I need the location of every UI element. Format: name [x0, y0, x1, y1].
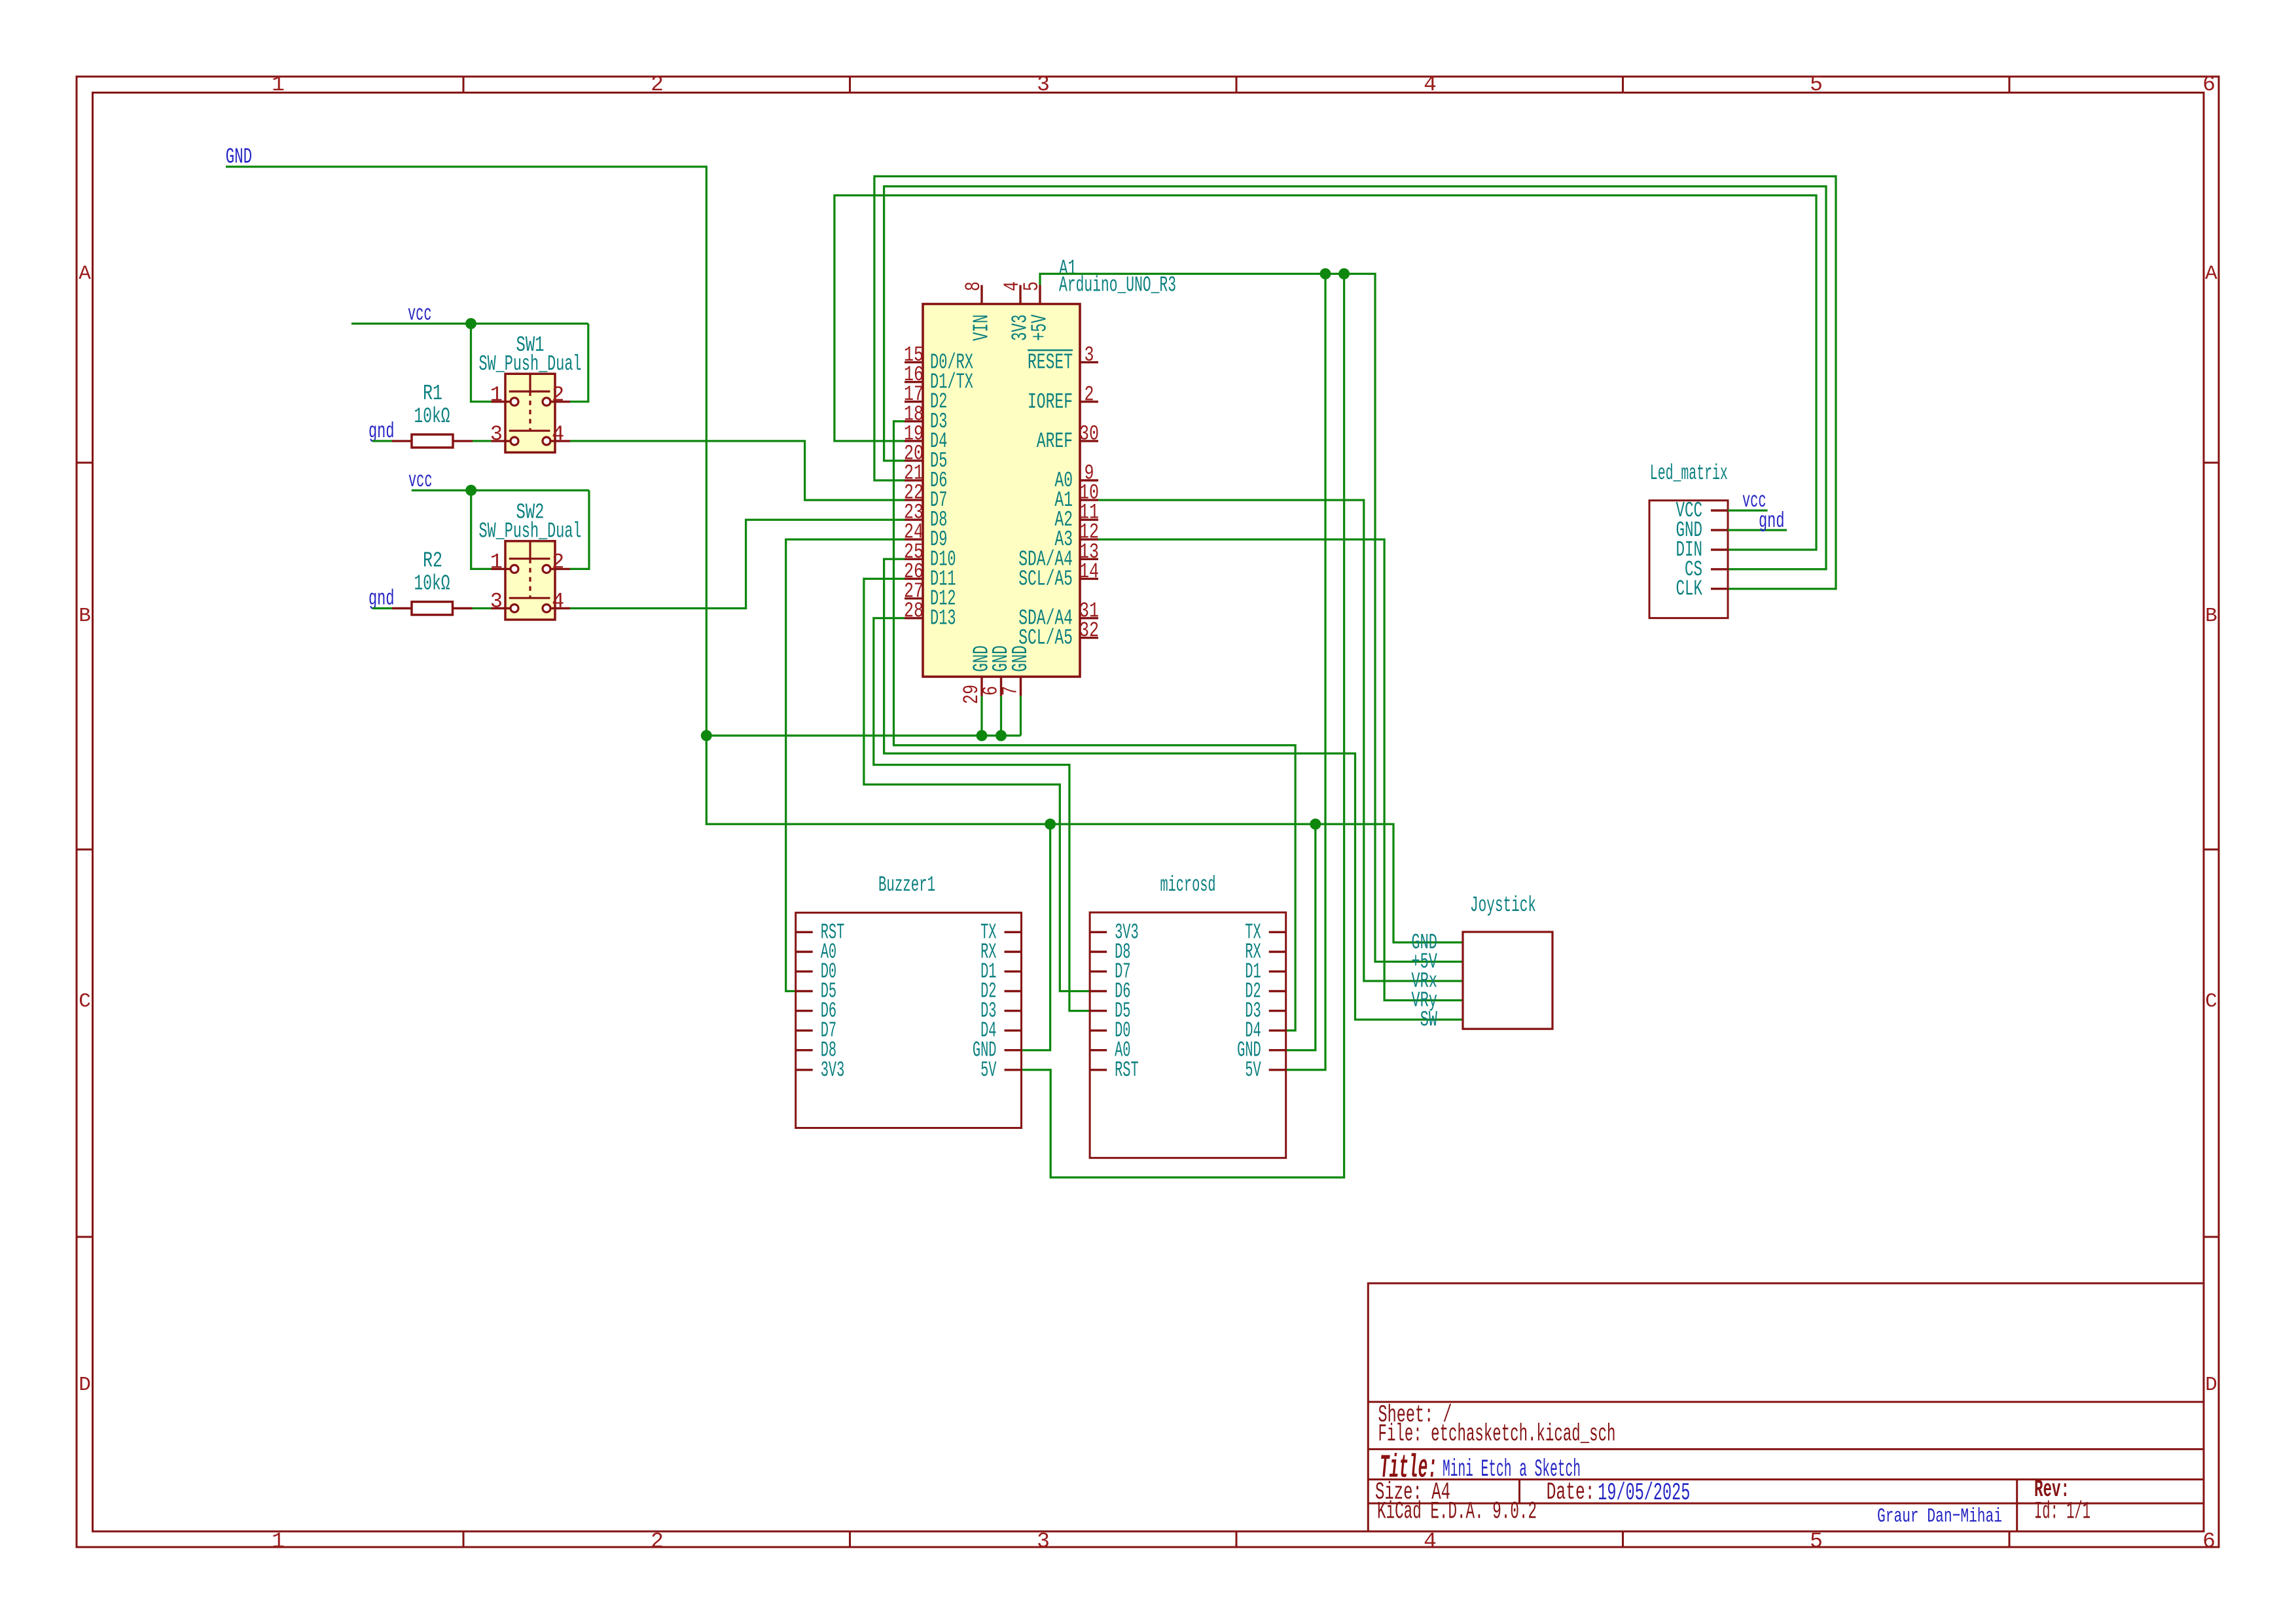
wire A3 to Joystick VRy [1098, 539, 1463, 1000]
wire GND from label down to Arduino GND pins [226, 167, 706, 736]
svg-text:Joystick: Joystick [1470, 893, 1536, 918]
svg-text:VIN: VIN [970, 315, 994, 342]
wire gnd to R1 [372, 440, 392, 442]
wire +5V from pin5 to Joystick +5V [1040, 274, 1463, 961]
wire GND bus to Joystick GND [706, 736, 1463, 942]
pin 23 D8 [905, 518, 923, 520]
svg-text:19/05/2025: 19/05/2025 [1598, 1480, 1690, 1507]
svg-text:Led_matrix: Led_matrix [1650, 461, 1728, 486]
pin 9 A0 [1080, 479, 1098, 481]
svg-text:4: 4 [552, 422, 564, 446]
wire +5V down to Buzzer1 5V [1022, 274, 1344, 1177]
svg-text:3: 3 [490, 422, 503, 446]
wire R1 to SW1 pin3 [473, 440, 492, 442]
sheet pin 3V3 (left) [1090, 931, 1107, 933]
wire vcc to SW2 pin1 [471, 490, 492, 569]
sheet pin 5V (right) [1269, 1069, 1286, 1071]
pin 6 GND (bottom) [1000, 677, 1002, 696]
svg-text:Arduino_UNO_R3: Arduino_UNO_R3 [1059, 274, 1176, 298]
wire [570, 441, 905, 500]
svg-text:C: C [79, 990, 91, 1013]
svg-text:D: D [2205, 1374, 2217, 1397]
pin 25 D10 [905, 558, 923, 560]
wire gnd to R2 [372, 607, 392, 609]
sheet pin D5 (left) [1090, 1010, 1107, 1012]
pin 31 SDA/A4 [1080, 617, 1098, 619]
junction GND microsd [1310, 819, 1321, 830]
pin 19 D4 [905, 440, 923, 442]
svg-text:AREF: AREF [1037, 429, 1073, 454]
sheet Buzzer1 [796, 913, 1022, 1128]
sheet pin D4 (right) [1005, 1029, 1022, 1031]
sheet pin D8 (left) [1090, 951, 1107, 953]
svg-text:5: 5 [1810, 73, 1823, 97]
svg-text:RST: RST [1115, 1058, 1139, 1082]
svg-text:2: 2 [651, 73, 664, 97]
svg-text:6: 6 [2202, 73, 2215, 97]
svg-text:IOREF: IOREF [1028, 390, 1073, 414]
svg-text:2: 2 [1085, 382, 1094, 406]
sheet pin GND (right) [1269, 1049, 1286, 1051]
wire R2 to SW2 pin3 [473, 607, 492, 609]
sheet pin D8 (left) [796, 1049, 813, 1051]
wire GND to microsd GND [1286, 824, 1316, 1050]
pin 10 A1 [1080, 499, 1098, 501]
svg-text:SW: SW [1420, 1008, 1438, 1032]
connector Joystick symbol body [1463, 932, 1552, 1029]
wire A1 to Joystick VRx [1098, 500, 1463, 981]
svg-text:10kΩ: 10kΩ [414, 572, 450, 596]
svg-text:8: 8 [961, 281, 986, 291]
pin 22 D7 [905, 499, 923, 501]
wire GND to Buzzer1 GND [1022, 824, 1050, 1050]
wire D5 to Led_matrix CS [884, 187, 1826, 569]
wire GND pin6 [1000, 696, 1002, 736]
pin 18 D3 [905, 420, 923, 422]
svg-text:28: 28 [904, 599, 924, 623]
wire D10 to Joystick SW [884, 559, 1463, 1020]
svg-text:3: 3 [490, 590, 503, 614]
svg-text:File: etchasketch.kicad_sch: File: etchasketch.kicad_sch [1378, 1421, 1616, 1448]
svg-text:1: 1 [272, 1529, 285, 1554]
sheet pin D5 (left) [796, 990, 813, 992]
svg-text:2: 2 [651, 1529, 664, 1554]
pin 26 D11 [905, 578, 923, 580]
sheet pin D7 (left) [796, 1029, 813, 1031]
sheet pin TX (right) [1269, 931, 1286, 933]
wire GND pin29 [980, 696, 982, 736]
sheet pin D1 (right) [1005, 971, 1022, 972]
sheet pin RST (left) [796, 931, 813, 933]
wire D11 to microsd D6 [864, 579, 1090, 991]
pin 17 D2 [905, 401, 923, 402]
svg-text:1: 1 [490, 550, 503, 574]
sheet pin RX (right) [1005, 951, 1022, 953]
svg-text:32: 32 [1079, 618, 1099, 643]
sheet pin D6 (left) [1090, 990, 1107, 992]
sheet pin D2 (right) [1269, 990, 1286, 992]
pin 2 IOREF [1080, 401, 1098, 402]
wire vcc to SW1 pin1 [471, 324, 492, 402]
sheet pin RX (right) [1269, 951, 1286, 953]
wire [1728, 509, 1768, 511]
svg-text:SCL/A5: SCL/A5 [1018, 567, 1073, 591]
junction GND Buzzer [1045, 819, 1056, 830]
svg-text:Id: 1/1: Id: 1/1 [2034, 1499, 2090, 1526]
svg-text:Graur Dan−Mihai: Graur Dan−Mihai [1877, 1505, 2002, 1528]
svg-text:3V3: 3V3 [821, 1058, 845, 1082]
wire GND pin7 [1020, 696, 1022, 736]
pin 24 D9 [905, 539, 923, 541]
Arduino_UNO_R3 A1 symbol body [923, 304, 1080, 677]
svg-text:Date:: Date: [1547, 1479, 1595, 1507]
svg-text:2: 2 [552, 550, 564, 574]
wire [1728, 529, 1787, 531]
sheet pin CLK (Led_matrix) [1711, 588, 1728, 590]
sheet pin D6 (left) [796, 1010, 813, 1012]
svg-text:gnd: gnd [368, 586, 395, 611]
svg-text:SW_Push_Dual: SW_Push_Dual [479, 519, 582, 543]
junction vcc-SW1 [465, 318, 476, 329]
svg-text:4: 4 [1424, 1529, 1437, 1554]
pin 29 GND (bottom) [980, 677, 982, 696]
wire D9 to Buzzer1 D5 [786, 539, 905, 991]
svg-text:CLK: CLK [1676, 577, 1703, 601]
wire D13 to microsd D5 [874, 618, 1090, 1011]
wire vcc SW2 [412, 490, 589, 491]
sheet pin A0 (left) [796, 951, 813, 953]
pin 32 SCL/A5 [1080, 637, 1098, 639]
svg-text:microsd: microsd [1160, 873, 1216, 897]
svg-text:5V: 5V [1245, 1058, 1261, 1082]
svg-text:A: A [2205, 262, 2217, 285]
svg-text:KiCad E.D.A. 9.0.2: KiCad E.D.A. 9.0.2 [1377, 1499, 1537, 1526]
sheet Led_matrix [1649, 501, 1728, 618]
svg-text:1: 1 [490, 383, 503, 407]
sheet pin D3 (right) [1269, 1010, 1286, 1012]
pin 27 D12 [905, 597, 923, 599]
sheet pin 3V3 (left) [796, 1069, 813, 1071]
sheet pin A0 (left) [1090, 1049, 1107, 1051]
wire vcc to SW2 pin2 [570, 490, 589, 569]
pin 21 D6 [905, 479, 923, 481]
svg-text:5V: 5V [980, 1058, 997, 1082]
pin 20 D5 [905, 459, 923, 461]
sheet pin 5V (right) [1005, 1069, 1022, 1071]
svg-text:R2: R2 [423, 549, 442, 573]
wire [570, 520, 905, 608]
svg-text:7: 7 [999, 686, 1023, 696]
pin 28 D13 [905, 617, 923, 619]
svg-text:Buzzer1: Buzzer1 [878, 873, 935, 897]
svg-text:3: 3 [1085, 343, 1094, 367]
title block [1368, 1283, 2204, 1531]
junction GND [701, 730, 712, 741]
wire D3 to microsd D4 [894, 421, 1296, 1031]
pin 7 GND (bottom) [1020, 677, 1022, 696]
sheet microsd [1090, 912, 1286, 1158]
pin 15 D0/RX [905, 361, 923, 363]
sheet pin GND (Led_matrix) [1711, 529, 1728, 531]
wire GND bus to Arduino GND pins [706, 734, 1020, 736]
sheet pin D7 (left) [1090, 971, 1107, 972]
pin 8 VIN (top) [980, 285, 982, 304]
svg-text:4: 4 [1424, 73, 1437, 97]
svg-text:gnd: gnd [1759, 509, 1785, 533]
junction GND pin29 [977, 730, 988, 741]
sheet pin D4 (right) [1269, 1029, 1286, 1031]
sheet pin RST (left) [1090, 1069, 1107, 1071]
pin 5 +5V (top) [1039, 285, 1041, 304]
junction vcc-SW2 [465, 485, 476, 496]
svg-text:4: 4 [552, 590, 564, 614]
pin 11 A2 [1080, 519, 1098, 521]
svg-text:+5V: +5V [1028, 314, 1052, 341]
sheet pin D0 (left) [796, 971, 813, 972]
sheet pin D2 (right) [1005, 990, 1022, 992]
junction +5V / microsd 5V [1320, 268, 1331, 279]
svg-text:2: 2 [552, 383, 564, 407]
svg-text:B: B [2205, 605, 2217, 628]
svg-text:D: D [79, 1374, 91, 1397]
svg-text:1: 1 [272, 73, 285, 97]
svg-text:6: 6 [2202, 1529, 2215, 1554]
wire D6 to Led_matrix CLK [874, 176, 1836, 588]
sheet pin D3 (right) [1005, 1010, 1022, 1012]
pin 30 AREF [1080, 440, 1098, 442]
pin 16 D1/TX [905, 381, 923, 383]
svg-text:3: 3 [1037, 73, 1050, 97]
svg-text:R1: R1 [423, 382, 442, 406]
pin 14 SCL/A5 [1080, 578, 1098, 580]
sheet pin D0 (left) [1090, 1029, 1107, 1031]
svg-text:5: 5 [1810, 1529, 1823, 1554]
junction GND pin6 [996, 730, 1007, 741]
junction +5V / Buzzer 5V [1338, 268, 1350, 279]
svg-text:30: 30 [1079, 421, 1099, 446]
sheet pin CS (Led_matrix) [1711, 568, 1728, 570]
svg-text:RESET: RESET [1028, 351, 1073, 375]
wire D4 to Led_matrix DIN [834, 196, 1816, 550]
svg-text:GND: GND [1009, 645, 1033, 672]
svg-text:14: 14 [1079, 560, 1099, 584]
pin 13 SDA/A4 [1080, 558, 1098, 560]
pin 12 A3 [1080, 539, 1098, 541]
svg-text:C: C [2205, 990, 2217, 1013]
svg-text:D13: D13 [930, 607, 956, 631]
pin 4 3V3 (top) [1019, 285, 1021, 304]
sheet pin D1 (right) [1269, 971, 1286, 972]
svg-text:B: B [79, 605, 91, 628]
svg-text:A: A [79, 262, 91, 285]
svg-text:3: 3 [1037, 1529, 1050, 1554]
svg-text:10kΩ: 10kΩ [414, 404, 450, 429]
sheet pin VCC (Led_matrix) [1711, 509, 1728, 511]
wire vcc SW1 [351, 323, 588, 325]
pin 3 RESET [1080, 361, 1098, 363]
sheet pin DIN (Led_matrix) [1711, 548, 1728, 550]
wire vcc to SW1 pin2 [570, 324, 588, 402]
sheet pin GND (right) [1005, 1049, 1022, 1051]
wire +5V down to microsd 5V [1286, 274, 1325, 1069]
sheet pin TX (right) [1005, 931, 1022, 933]
